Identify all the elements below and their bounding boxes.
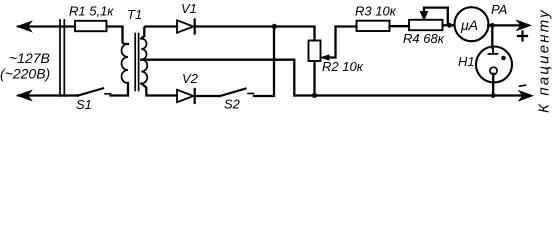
junction dot top rail (272, 24, 277, 29)
junction dot R2 bottom (312, 93, 317, 98)
switch S1 contact dash (105, 93, 111, 95)
wire lamp bottom lead (492, 74, 494, 96)
svg-text:R4 68к: R4 68к (403, 31, 445, 46)
wire R4 wiper loop (424, 8, 448, 26)
meter PA body (455, 7, 489, 41)
wire R2 bottom to rail (313, 61, 315, 96)
potentiometer R2 wiper arrow (321, 55, 329, 60)
transformer T1 core line 2 (138, 34, 140, 91)
transformer T1 primary winding (122, 44, 128, 83)
svg-text:R3 10к: R3 10к (355, 4, 397, 19)
resistor R1 (75, 21, 107, 31)
diode V2 cathode bar (194, 89, 196, 103)
svg-text:(~220В): (~220В) (0, 66, 50, 82)
neon lamp H1 body (476, 47, 512, 83)
wire R4 to meter (443, 24, 454, 26)
svg-text:S2: S2 (224, 97, 241, 112)
wire secondary centre tap (141, 60, 294, 96)
label plus (518, 32, 527, 41)
switch S2 contact dash (248, 93, 254, 95)
wire top-left mains lead (18, 25, 75, 27)
diode V2 (177, 90, 194, 102)
wire junction to R2 top (274, 27, 315, 41)
wire secondary bottom lead (141, 84, 177, 96)
wire V1 to junction (195, 25, 272, 27)
lamp H1 bottom electrode (490, 67, 497, 74)
svg-text:V2: V2 (182, 71, 199, 86)
wire R1 to primary (107, 27, 129, 45)
wire S2 up to top rail (254, 27, 274, 97)
wire primary bottom lead (127, 83, 129, 96)
rheostat R4 wiper arrow (points down onto body) (420, 12, 427, 20)
transformer T1 secondary winding (141, 39, 147, 84)
resistor R3 (357, 21, 390, 31)
svg-text:S1: S1 (76, 97, 92, 112)
wire V2 to S2 (195, 95, 220, 97)
diode V1 cathode bar (194, 20, 196, 34)
wire secondary top lead (141, 27, 177, 39)
arrow mains top (points left) (18, 22, 32, 32)
lamp H1 top electrode (489, 48, 498, 54)
rheostat R4 body (409, 20, 443, 30)
svg-text:Т1: Т1 (127, 7, 142, 22)
wire R3 to R4 (390, 25, 410, 27)
wire bottom-left mains lead (18, 94, 78, 96)
svg-text:μА: μА (460, 17, 478, 33)
wire meter to output (488, 24, 527, 26)
svg-text:~127В: ~127В (9, 50, 50, 66)
svg-text:V1: V1 (181, 1, 197, 16)
potentiometer R2 body (309, 41, 321, 62)
lamp H1 gas dot (501, 56, 506, 61)
wire S1 to transformer primary (111, 94, 128, 96)
junction dot meter left (447, 23, 452, 28)
arrow output plus (points right) (517, 21, 531, 31)
wire junction down to lamp (491, 25, 493, 47)
label minus (520, 85, 526, 86)
arrow output minus (points right) (519, 91, 533, 101)
connector X1 plug line 1 (59, 20, 61, 96)
wire bottom output rail (294, 94, 529, 96)
switch S1 blade (78, 88, 103, 95)
svg-text:К пациенту: К пациенту (536, 8, 553, 113)
connector X1 plug line 2 (63, 20, 65, 96)
svg-text:Н1: Н1 (458, 54, 475, 69)
junction dot output plus (490, 23, 495, 28)
arrow mains bottom (points left) (18, 91, 32, 101)
transformer T1 core line 1 (134, 34, 136, 91)
svg-text:РА: РА (491, 2, 507, 17)
diode V1 (177, 20, 194, 32)
svg-text:R2 10к: R2 10к (322, 59, 364, 74)
wire R2 wiper to top rail (328, 27, 357, 58)
svg-text:R1 5,1к: R1 5,1к (69, 4, 114, 19)
junction dot bottom rail (491, 93, 496, 98)
switch S2 blade (220, 89, 246, 96)
